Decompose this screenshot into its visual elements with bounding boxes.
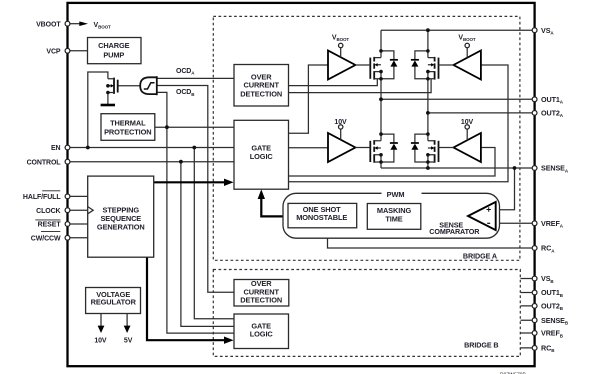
- svg-text:10V: 10V: [94, 338, 107, 345]
- svg-text:10V: 10V: [461, 119, 474, 126]
- svg-text:PWM: PWM: [387, 190, 405, 199]
- svg-text:PROTECTION: PROTECTION: [104, 127, 151, 136]
- svg-text:VCP: VCP: [46, 48, 61, 55]
- svg-text:CHARGE: CHARGE: [98, 41, 130, 50]
- svg-text:CW/CCW: CW/CCW: [31, 235, 61, 242]
- svg-text:RESET: RESET: [38, 222, 62, 229]
- svg-text:CONTROL: CONTROL: [27, 159, 62, 166]
- svg-text:5V: 5V: [124, 338, 133, 345]
- svg-text:LOGIC: LOGIC: [250, 152, 274, 161]
- svg-text:LOGIC: LOGIC: [250, 329, 274, 338]
- svg-text:DETECTION: DETECTION: [240, 296, 282, 305]
- svg-text:SEQUENCE: SEQUENCE: [100, 214, 141, 223]
- svg-text:THERMAL: THERMAL: [110, 118, 146, 127]
- svg-text:BRIDGE B: BRIDGE B: [464, 340, 498, 349]
- svg-text:DETECTION: DETECTION: [240, 90, 282, 99]
- svg-text:STEPPING: STEPPING: [103, 205, 140, 214]
- svg-text:CLOCK: CLOCK: [36, 208, 60, 215]
- svg-text:GENERATION: GENERATION: [97, 223, 145, 232]
- svg-text:MONOSTABLE: MONOSTABLE: [296, 213, 347, 222]
- svg-text:COMPARATOR: COMPARATOR: [429, 227, 480, 236]
- svg-text:REGULATOR: REGULATOR: [91, 298, 137, 307]
- svg-text:TIME: TIME: [385, 215, 402, 224]
- svg-text:SENSEA: SENSEA: [541, 164, 569, 174]
- svg-text:EN: EN: [51, 145, 61, 152]
- svg-text:HALF/FULL: HALF/FULL: [23, 194, 61, 201]
- svg-text:PUMP: PUMP: [103, 50, 124, 59]
- svg-text:10V: 10V: [334, 119, 347, 126]
- svg-text:SENSEB: SENSEB: [541, 316, 569, 326]
- svg-text:BRIDGE A: BRIDGE A: [463, 251, 497, 260]
- svg-text:VBOOT: VBOOT: [36, 22, 61, 29]
- svg-text:CURRENT: CURRENT: [243, 81, 279, 90]
